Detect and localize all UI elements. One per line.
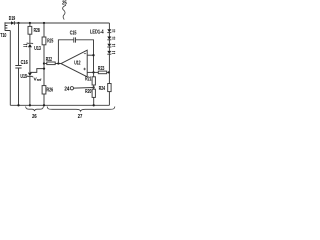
zener U15 (27, 73, 33, 78)
wire R28 branch top (29, 23, 31, 26)
wire R21 R20 link (93, 85, 95, 89)
wire C16 branch lower (18, 68, 20, 105)
terminal 24 (70, 87, 93, 90)
resistor R28 (28, 26, 32, 34)
wire LED2-LED3 (108, 40, 110, 44)
svg-text:26: 26 (32, 114, 37, 120)
svg-text:C16: C16 (21, 60, 28, 66)
resistor R24 (108, 84, 111, 92)
svg-text:U12: U12 (74, 60, 80, 66)
resistor R22 (47, 62, 55, 65)
wire R20 to bottom rail (93, 97, 95, 105)
svg-text:R24: R24 (99, 86, 105, 92)
svg-text:R26: R26 (47, 87, 54, 93)
op-amp U12 (61, 50, 87, 77)
node top R25 junction (43, 22, 45, 24)
wire R25 to R26 column (43, 45, 45, 86)
capacitor C16 (15, 66, 21, 69)
node bottom R26 junction (43, 104, 45, 106)
LED4 (107, 51, 115, 54)
node plus junction (92, 71, 94, 73)
photodiode U13 (23, 43, 33, 48)
transformer winding T10 (5, 22, 10, 31)
wire R28 to U13 (29, 34, 31, 43)
wire U13 to Vref node (29, 47, 31, 72)
LED1 (107, 29, 115, 32)
node R22 junction (43, 62, 45, 64)
resistor R25 (42, 37, 46, 45)
node R20 bottom junction (93, 104, 95, 106)
svg-text:T10: T10 (0, 33, 6, 39)
wire R23 right lead (107, 71, 110, 73)
brace 27 (47, 107, 115, 112)
wire R21 top lead (93, 72, 95, 76)
wire feedback top and right vertical (76, 40, 94, 73)
wire R25 branch top (43, 23, 45, 37)
pin plus stub (87, 71, 98, 73)
node terminal 24 junction (92, 86, 94, 88)
svg-text:R23: R23 (98, 66, 105, 72)
leader squiggle 25 (63, 5, 66, 19)
svg-text:C15: C15 (70, 31, 77, 37)
pin minus stub (87, 54, 93, 56)
wire bottom rail (10, 104, 109, 106)
svg-text:R22: R22 (46, 57, 52, 63)
svg-text:U15: U15 (20, 74, 27, 80)
wire C16 branch upper (18, 23, 20, 65)
wire top rail (5, 22, 109, 24)
svg-text:27: 27 (78, 114, 83, 120)
node op-amp output (57, 62, 59, 64)
wire R22 right lead (55, 63, 61, 65)
brace 26 (26, 107, 44, 112)
resistor R20 (92, 89, 95, 97)
node top R28 junction (29, 22, 31, 24)
wire LED4 to R24 (108, 54, 110, 83)
svg-text:U13: U13 (34, 46, 41, 52)
resistor R23 (98, 71, 106, 74)
resistor R26 (42, 86, 46, 94)
wire R24 to bottom rail (108, 92, 110, 106)
capacitor C15 (74, 37, 76, 42)
svg-text:R28: R28 (34, 28, 40, 34)
svg-text:Vref: Vref (34, 77, 43, 83)
LED3 (107, 44, 115, 47)
wire R26 to bottom rail (43, 94, 45, 105)
diode D19 (11, 21, 14, 25)
wire U15 to bottom rail (29, 77, 31, 106)
svg-text:24: 24 (64, 86, 69, 92)
svg-text:R21: R21 (85, 77, 91, 83)
wire left rail (9, 31, 11, 106)
svg-text:R20: R20 (85, 89, 91, 95)
svg-text:25: 25 (62, 1, 67, 7)
wire Vref link (30, 69, 44, 73)
LED2 (107, 37, 115, 40)
plus sign (83, 68, 86, 71)
node bottom U15 junction (29, 104, 31, 106)
svg-text:LED1-4: LED1-4 (90, 30, 104, 36)
node Vref junction (43, 67, 45, 69)
wire LED string top (108, 23, 110, 29)
svg-text:D19: D19 (9, 16, 16, 22)
node R23 LED junction (108, 71, 110, 73)
node minus junction (92, 54, 94, 56)
node bottom C16 junction (17, 104, 19, 106)
node top C16 junction (17, 22, 19, 24)
resistor R21 (92, 77, 95, 85)
wire LED3-LED4 (108, 47, 110, 51)
minus sign (84, 53, 86, 55)
wire LED1-LED2 (108, 33, 110, 37)
svg-text:R25: R25 (47, 39, 53, 45)
wire feedback left vertical (58, 40, 73, 64)
wire R22 left lead (44, 63, 47, 65)
